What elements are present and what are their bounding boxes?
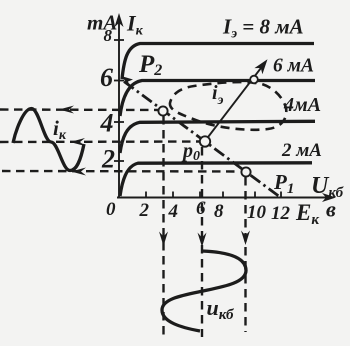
svg-text:4: 4 (100, 109, 114, 138)
arrowhead down left (159, 232, 168, 247)
svg-text:в: в (326, 197, 336, 222)
load line P2-P0-P1 (dash-dot) (124, 82, 280, 198)
arrow i_e axis (205, 64, 264, 141)
svg-text:10: 10 (247, 202, 267, 223)
y-axis ticks (114, 40, 124, 161)
point p0 (operating point) (200, 136, 210, 146)
small circle on 6mA curve (250, 76, 258, 84)
svg-text:2 мА: 2 мА (281, 140, 322, 161)
curve Ie=4mA (120, 121, 315, 153)
svg-text:12: 12 (271, 203, 291, 224)
waveform i_k (left sine) (13, 109, 84, 171)
y-axis I_k (118, 18, 120, 197)
load line top arrowhead at P2 (121, 76, 133, 87)
x-axis arrowhead (322, 193, 336, 202)
svg-text:mA: mA (87, 11, 117, 35)
svg-text:2: 2 (101, 145, 115, 174)
x-axis ticks (146, 192, 281, 198)
y-axis arrowhead (115, 13, 124, 27)
svg-text:6: 6 (100, 63, 113, 92)
projection line vertical left (x=163.5) (162, 116, 164, 336)
svg-text:6: 6 (196, 198, 206, 219)
svg-text:4мА: 4мА (283, 94, 321, 116)
x-axis U_kb (117, 197, 330, 199)
svg-text:8: 8 (104, 26, 113, 45)
arrowhead left upper (59, 106, 74, 114)
projection line horizontal lower (to i_k trough) (2, 170, 240, 173)
projection line horizontal middle (to i_k axis) (0, 140, 199, 143)
projection line vertical right (x=245.5) (244, 177, 246, 332)
arrowhead left middle (70, 138, 85, 146)
waveform u_kb (bottom sine) (162, 251, 246, 331)
point circle at lower swing (241, 167, 250, 176)
svg-text:8: 8 (214, 201, 224, 222)
ellipse i_e (dashed) (170, 82, 286, 130)
curve Ie=2mA (120, 163, 312, 196)
arrowhead down middle (198, 233, 207, 248)
svg-text:0: 0 (106, 199, 116, 220)
curve Ie=6mA (120, 81, 315, 117)
arrowhead down right (241, 231, 250, 246)
svg-text:2: 2 (139, 200, 150, 221)
curve Ie=8mA (122, 44, 314, 80)
point circle on load line at 4mA level (158, 106, 167, 115)
projection line horizontal upper (to i_k crest) (0, 108, 158, 111)
svg-text:6 мА: 6 мА (273, 56, 314, 77)
projection line vertical middle (x=202) (201, 147, 203, 337)
arrowhead left lower (71, 168, 86, 176)
svg-text:4: 4 (168, 201, 179, 222)
